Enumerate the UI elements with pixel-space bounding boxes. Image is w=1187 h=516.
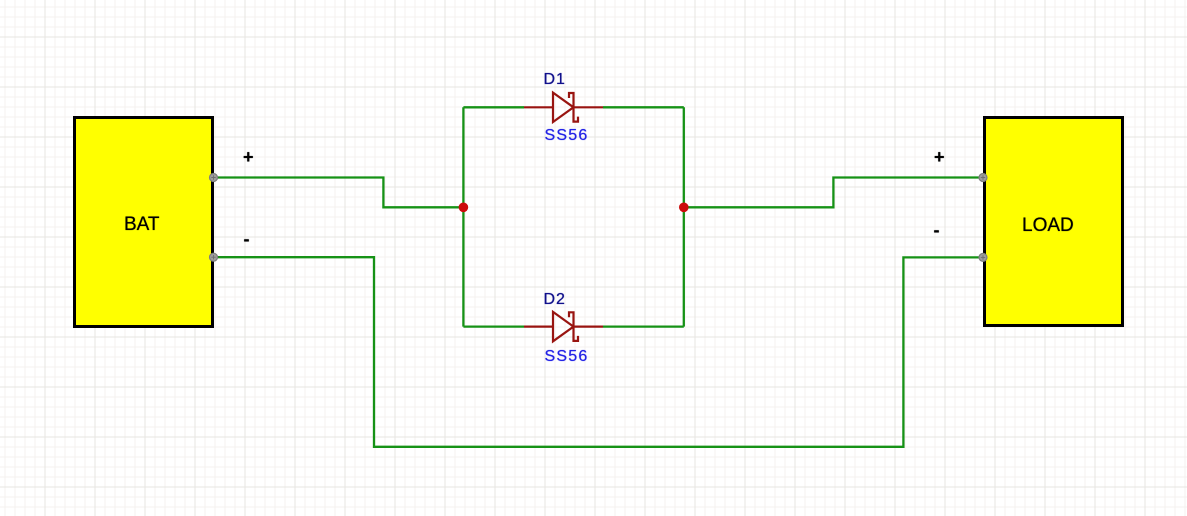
diode D1 (524, 93, 603, 122)
wire BAT- to LOAD- bottom return (214, 257, 984, 447)
node A junction (459, 203, 469, 213)
label D1 value SS56 (545, 127, 589, 145)
node B junction (679, 203, 689, 213)
label D1 reference (544, 71, 566, 89)
label BAT (124, 214, 160, 236)
label D2 value SS56 (545, 348, 589, 366)
pin LOAD - terminal (979, 253, 987, 261)
label BAT pin + (243, 147, 254, 168)
wire D2 cathode segment (603, 325, 684, 327)
label LOAD pin + (934, 147, 945, 168)
wire right vertical branch (683, 107, 685, 326)
label BAT pin - (244, 229, 250, 250)
label D2 reference (544, 291, 566, 309)
wire D1 cathode segment (603, 106, 684, 108)
wire D2 anode segment (463, 325, 524, 327)
component LOAD block (983, 116, 1125, 327)
wire left vertical branch (462, 107, 464, 326)
component BAT battery block (73, 116, 214, 328)
label LOAD pin - (934, 220, 940, 241)
wire node B to LOAD+ (684, 178, 983, 208)
wire W1 BAT+ to node A (214, 178, 464, 208)
diode D2 (524, 312, 603, 341)
pin LOAD + terminal (979, 174, 987, 182)
pin BAT + terminal (210, 174, 218, 182)
pin BAT - terminal (210, 253, 218, 261)
label LOAD (1022, 215, 1074, 237)
wire D1 anode segment (463, 106, 524, 108)
